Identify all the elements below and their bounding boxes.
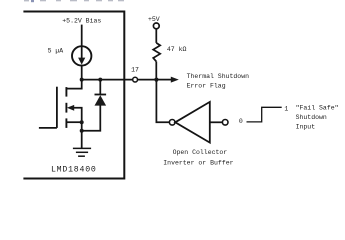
- node diode anode junction dot: [80, 129, 84, 133]
- wire inverter input lead: [210, 121, 223, 123]
- current source arrow (downward): [81, 46, 83, 59]
- svg-text:"Fail Safe": "Fail Safe": [296, 104, 339, 111]
- wire resistor to node: [155, 62, 157, 80]
- inverter U1 triangle: [175, 102, 210, 143]
- transistor M1 drain stub: [66, 80, 81, 89]
- svg-text:Inverter or Buffer: Inverter or Buffer: [163, 159, 233, 166]
- node resistor/pin/flag junction dot: [154, 78, 158, 82]
- svg-text:Shutdown: Shutdown: [296, 114, 327, 121]
- wire top rail to pin 17: [82, 79, 133, 81]
- +5V terminal circle: [153, 23, 159, 29]
- transistor M1 channel bottom segment: [65, 118, 67, 128]
- pin 17 terminal circle: [133, 77, 138, 82]
- svg-text:Input: Input: [296, 124, 316, 131]
- diode D1 anode lead: [82, 105, 101, 131]
- svg-text:5 µA: 5 µA: [48, 47, 64, 54]
- cropped text remnant top edge: [24, 0, 124, 2]
- svg-text:17: 17: [131, 66, 139, 73]
- diode D1 cathode bar: [95, 94, 107, 96]
- transistor M1 channel top segment: [65, 87, 67, 97]
- current source I1 circle: [72, 46, 91, 65]
- svg-text:+5.2V Bias: +5.2V Bias: [62, 18, 101, 25]
- wire bias lead into current source: [81, 25, 83, 47]
- node junction dot at diode top: [98, 78, 102, 82]
- svg-text:Open Collector: Open Collector: [173, 149, 228, 156]
- transistor M1 source stub: [66, 121, 81, 123]
- svg-text:Error Flag: Error Flag: [187, 82, 226, 89]
- transistor M1 gate bar: [56, 87, 58, 128]
- transistor M1 body arrow: [73, 108, 82, 122]
- wire source down to ground: [81, 122, 83, 148]
- svg-text:LMD18400: LMD18400: [51, 165, 97, 174]
- arrowhead thermal shutdown error flag: [171, 77, 179, 83]
- node source junction dot: [80, 120, 84, 124]
- inverter U1 output bubble: [169, 120, 175, 126]
- IC outline box LMD18400 (open on left): [23, 12, 124, 179]
- waveform step input: [247, 107, 282, 122]
- diode D1 cathode lead: [99, 80, 101, 95]
- transistor M1 channel middle segment: [65, 103, 67, 113]
- input terminal circle: [222, 120, 228, 126]
- transistor M1 gate lead: [39, 127, 57, 129]
- svg-text:47 kΩ: 47 kΩ: [167, 46, 187, 53]
- node junction dot at current source / drain: [80, 78, 84, 82]
- wire to thermal flag arrow: [156, 79, 172, 81]
- resistor R1 47k zigzag: [153, 43, 160, 62]
- wire +5V to resistor: [155, 29, 157, 43]
- svg-text:0: 0: [239, 118, 243, 125]
- diode D1 triangle: [95, 95, 107, 105]
- svg-text:+5V: +5V: [148, 16, 160, 23]
- wire current source to top rail: [81, 65, 83, 80]
- ground symbol: [73, 148, 91, 156]
- svg-text:1: 1: [284, 105, 288, 112]
- svg-text:Thermal Shutdown: Thermal Shutdown: [187, 73, 250, 80]
- wire pin 17 to resistor node: [138, 79, 157, 81]
- wire node down to inverter output: [156, 80, 169, 123]
